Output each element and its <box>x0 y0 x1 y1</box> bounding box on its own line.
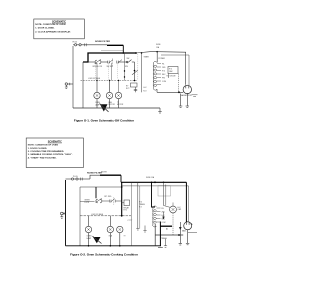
ground symbol x145 b <box>143 226 146 233</box>
winding labels b <box>162 208 167 224</box>
svg-text:Figure O-2. Oven Schematic-Coo: Figure O-2. Oven Schematic-Cooking Condi… <box>70 253 138 257</box>
junction dot box top b <box>121 186 123 188</box>
light box mid b <box>158 186 171 197</box>
fan motor circle M2b <box>107 216 113 246</box>
second top wire b <box>122 185 189 187</box>
svg-text:2. CLOCK APPEARS ON DISPLAY.: 2. CLOCK APPEARS ON DISPLAY. <box>35 30 71 33</box>
schematic 1 group <box>65 41 198 113</box>
svg-text:2. COOKING TIME PROGRAMMED.: 2. COOKING TIME PROGRAMMED. <box>28 150 65 153</box>
wire neutral staircase thick <box>83 53 136 62</box>
wire switch row b <box>80 201 124 203</box>
junction dot HV bottom <box>178 91 180 93</box>
note box 2 border <box>26 138 83 168</box>
monitor switch blob <box>100 104 109 112</box>
mid vertical x139.8 b <box>139 186 141 229</box>
note box 1 title underline <box>52 22 66 24</box>
junction dot at 136,53 <box>135 52 137 54</box>
left rail b <box>65 180 67 246</box>
svg-text:MAG.: MAG. <box>182 230 187 233</box>
small box mid b <box>124 200 130 206</box>
junction dot at 123,53 <box>123 52 125 54</box>
interlock switch S1 <box>95 59 101 63</box>
svg-text:H.V.: H.V. <box>144 87 148 89</box>
svg-text:NOISE FILTER: NOISE FILTER <box>95 41 110 43</box>
mid vertical x137.8 b <box>137 182 139 228</box>
svg-text:TT: TT <box>124 236 126 238</box>
magnetron V1b <box>184 222 192 230</box>
mid vertical x134.5 <box>134 62 136 81</box>
switch link dashes <box>96 64 118 81</box>
svg-text:NOTE: CONDITION OF OVEN: NOTE: CONDITION OF OVEN <box>35 24 66 26</box>
relay box K1 <box>131 83 138 87</box>
svg-text:LOW VOLTAGE: LOW VOLTAGE <box>91 213 104 216</box>
thick vertical x119.5 b <box>121 182 123 216</box>
winding labels <box>162 63 167 83</box>
svg-text:1ST. 2ND.: 1ST. 2ND. <box>104 196 112 198</box>
magnetron right line b <box>188 232 197 234</box>
wire step up b <box>90 175 100 179</box>
bus junction dots b <box>88 245 121 247</box>
dashed bus y216.5 b <box>80 215 131 217</box>
junction dot x134 <box>134 70 136 72</box>
fan motor circle M2 <box>106 81 112 109</box>
oven lamp circle M1 <box>94 81 100 109</box>
transformer bottom lead <box>156 89 158 92</box>
transformer T1 coil <box>153 61 161 90</box>
bottom bus wire <box>73 107 160 109</box>
svg-text:SW. SW.: SW. SW. <box>107 66 114 68</box>
junction dot fuse tee <box>156 51 158 53</box>
junction dot fuse b <box>154 181 156 183</box>
wire drop x121 b <box>120 175 122 182</box>
arrow lead ground b <box>179 244 182 246</box>
thermal cap symbol <box>134 87 137 92</box>
wire switch row <box>88 61 135 63</box>
svg-text:COM: COM <box>162 81 167 83</box>
note box 1 border <box>34 19 85 39</box>
interlock switch S1b <box>96 198 116 205</box>
dashed bus y80.5 <box>81 80 138 82</box>
thick tap bar b <box>160 225 172 227</box>
relay blade <box>132 70 138 75</box>
magnetron lower lead ground b <box>186 230 189 245</box>
junction dots x124 <box>124 70 125 71</box>
svg-text:1. DOOR CLOSED.: 1. DOOR CLOSED. <box>28 148 48 150</box>
power cord plug P1 <box>73 44 107 46</box>
magnetron lower lead 2 to ground <box>186 93 189 108</box>
thick drop to switch b <box>95 187 97 198</box>
right pair verticals b <box>185 182 187 222</box>
junction dot at 141,53 <box>141 52 143 54</box>
HV bottom wire b <box>155 234 183 236</box>
switch drop x111.5 <box>111 63 113 81</box>
wire filter lower line <box>101 50 123 52</box>
transformer primary feed b <box>152 182 156 207</box>
filter lower wire b <box>80 186 122 188</box>
turntable motor circle M3 <box>115 53 124 108</box>
svg-text:FIL: FIL <box>162 208 164 210</box>
interlock switch S3 <box>126 60 131 64</box>
left rail tap symbol b <box>60 212 65 218</box>
svg-text:TRANS: TRANS <box>161 237 168 240</box>
junction dot dashed bus b <box>121 215 123 217</box>
switch drop x97 <box>96 63 98 81</box>
svg-text:CAP.: CAP. <box>178 208 182 211</box>
svg-text:CAP.: CAP. <box>169 70 173 73</box>
svg-text:FUSE 15A: FUSE 15A <box>146 176 155 179</box>
svg-text:CT TT: CT TT <box>128 220 133 222</box>
HV cap circle component <box>164 206 177 213</box>
svg-text:NOTE: CONDITION OF OVEN: NOTE: CONDITION OF OVEN <box>28 145 59 147</box>
svg-text:LOW VOLTAGE: LOW VOLTAGE <box>88 77 101 80</box>
svg-text:H.V.: H.V. <box>162 70 166 72</box>
dashed drop from C1 <box>178 74 180 93</box>
dashed vertical mid <box>137 54 139 81</box>
svg-text:Figure O-1. Oven Schematic-Off: Figure O-1. Oven Schematic-Off Condition <box>74 119 134 123</box>
interlock switch S2 <box>108 59 122 66</box>
note box 2 underline <box>48 142 62 144</box>
magnetron lower lead 1 to ground <box>179 94 182 108</box>
down arrow mid b <box>162 212 164 220</box>
second rail x83 <box>82 62 84 108</box>
current arrow down b <box>179 222 182 244</box>
power cord plug P1b <box>66 178 91 181</box>
svg-text:MOTOR: MOTOR <box>109 104 116 106</box>
wire magnetron second lead <box>161 55 189 85</box>
junction dots top b <box>163 182 165 184</box>
dots on dashed bus <box>96 80 119 81</box>
svg-text:4. "START" PAD TOUCHED.: 4. "START" PAD TOUCHED. <box>28 156 57 159</box>
svg-text:POWER: POWER <box>159 58 166 60</box>
svg-text:MAGNETRON: MAGNETRON <box>181 94 193 97</box>
mid vertical x141.5 <box>141 53 143 92</box>
HV bottom wire <box>157 91 183 93</box>
transformer T1b coil <box>153 206 161 227</box>
svg-text:1. DOOR CLOSED.: 1. DOOR CLOSED. <box>35 28 55 30</box>
turntable motor circle M3b <box>117 226 123 246</box>
magnetron V1 <box>183 85 191 93</box>
bottom bus b <box>66 245 162 247</box>
junction dot HV bottom b <box>178 234 180 236</box>
svg-text:SW.: SW. <box>127 58 131 60</box>
antenna tick right of magnetron <box>192 95 198 97</box>
svg-text:RY2: RY2 <box>124 210 127 212</box>
cap top stub b <box>172 203 174 207</box>
box left lower lead <box>168 74 170 79</box>
monitor blob b <box>93 236 102 243</box>
wire drop at x123 <box>122 45 124 53</box>
svg-text:PLUG: PLUG <box>73 42 78 44</box>
HV capacitor box C1 <box>168 67 178 74</box>
svg-text:A2: A2 <box>166 228 168 231</box>
filament ground thick vertical b <box>158 222 163 248</box>
left rail tap symbol <box>65 83 73 89</box>
oven lamp circle M1b <box>85 216 91 246</box>
svg-text:TIMER: TIMER <box>144 57 150 59</box>
second rail x79.5 b <box>79 187 81 246</box>
transformer T1 primary lead <box>156 52 158 63</box>
dashed drop b <box>172 213 174 235</box>
left rail wire <box>72 46 74 108</box>
mid pair verticals b <box>163 182 165 205</box>
svg-text:PLUG: PLUG <box>73 176 78 178</box>
wire L1b thick <box>100 174 121 176</box>
svg-text:SW.: SW. <box>125 66 129 68</box>
svg-text:INTERLOCK: INTERLOCK <box>93 66 104 68</box>
ground symbol x165.5 b <box>164 239 167 248</box>
svg-text:H.V. DIODE: H.V. DIODE <box>167 75 177 77</box>
mid vertical x131.6 b <box>131 182 133 246</box>
schematic 2 group <box>60 171 197 247</box>
bus turn up b <box>154 224 156 246</box>
svg-text:RY2: RY2 <box>126 88 129 90</box>
antenna tick b <box>191 223 193 225</box>
svg-text:COM: COM <box>162 222 167 224</box>
wire L1 thick segment <box>107 44 123 46</box>
wire y53 to fuse <box>136 52 157 53</box>
svg-text:3. VARIABLE COOKING CONTROL ": 3. VARIABLE COOKING CONTROL "HIGH". <box>28 153 73 156</box>
chassis ground at bus end <box>158 108 161 113</box>
wire y182 b <box>121 181 186 183</box>
ground at x137.8 b <box>136 229 139 231</box>
wire top HV feed <box>157 52 186 85</box>
svg-text:FILTER: FILTER <box>101 171 107 173</box>
connector ticks <box>85 43 87 46</box>
svg-text:MOTOR: MOTOR <box>117 104 124 106</box>
svg-text:FIL: FIL <box>162 63 164 65</box>
